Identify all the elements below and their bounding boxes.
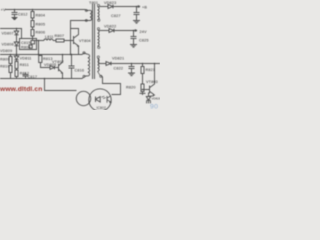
svg-text:R820: R820 (126, 85, 136, 89)
svg-text:R807: R807 (55, 34, 65, 38)
svg-text:VD809: VD809 (0, 49, 12, 53)
svg-text:+V: +V (1, 7, 6, 12)
svg-text:C825: C825 (139, 39, 149, 43)
svg-text:IC802: IC802 (97, 106, 106, 110)
svg-text:VD808: VD808 (2, 43, 14, 47)
svg-text:VD820: VD820 (152, 97, 161, 101)
svg-text:VD821: VD821 (112, 57, 124, 61)
svg-text:24V: 24V (140, 30, 147, 34)
svg-text:R808: R808 (21, 45, 31, 49)
svg-text:C822: C822 (114, 66, 124, 70)
svg-text:R810: R810 (0, 65, 10, 69)
svg-text:VD822: VD822 (104, 25, 116, 29)
svg-text:www.dltdl.cn: www.dltdl.cn (0, 86, 42, 93)
svg-text:VT803: VT803 (146, 80, 158, 84)
svg-text:T801: T801 (89, 1, 98, 5)
svg-text:+B: +B (142, 6, 147, 10)
svg-text:R805: R805 (36, 23, 46, 27)
svg-text:R809: R809 (0, 58, 10, 62)
svg-text:L811: L811 (45, 35, 54, 39)
svg-text:R821: R821 (146, 68, 156, 72)
svg-text:C812: C812 (18, 13, 28, 17)
svg-text:VD811: VD811 (20, 56, 32, 60)
svg-text:R804: R804 (36, 14, 46, 18)
svg-text:C816: C816 (75, 68, 85, 72)
svg-text:R806: R806 (36, 31, 46, 35)
svg-text:C817: C817 (28, 75, 38, 79)
svg-text:R811: R811 (20, 63, 29, 67)
svg-text:C827: C827 (111, 14, 121, 18)
svg-text:VT804: VT804 (79, 39, 91, 43)
svg-text:90: 90 (150, 104, 158, 111)
svg-text:VT802: VT802 (52, 60, 64, 64)
svg-text:VD807: VD807 (2, 32, 14, 36)
svg-text:VD823: VD823 (104, 1, 116, 5)
